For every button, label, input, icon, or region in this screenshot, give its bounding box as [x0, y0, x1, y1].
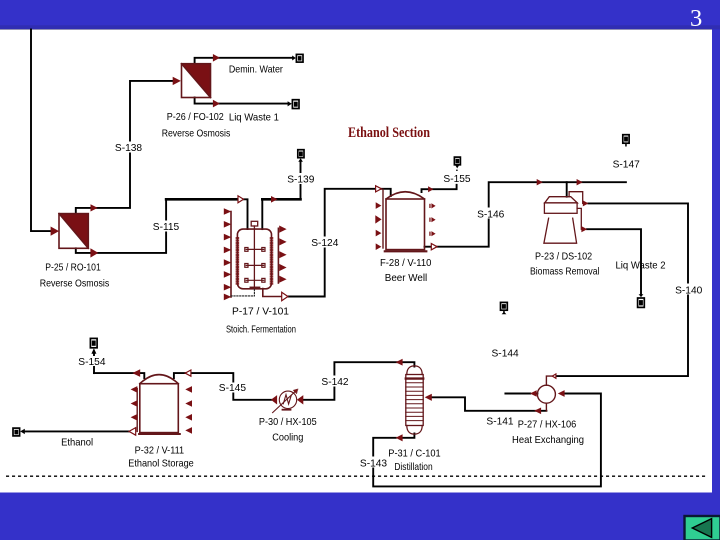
arrow S-146 into centrifuge [537, 179, 543, 185]
tag icon Ethanol [13, 428, 20, 436]
stream and unit labels [40, 64, 703, 473]
open arrow S-115 into fermentor [238, 196, 244, 203]
cooler P-30 / HX-105 [273, 389, 298, 413]
tag icon Demin Water [296, 54, 303, 62]
wire S-138 P-25 to P-26 [76, 81, 173, 214]
distillation column P-31 / C-101 [406, 366, 423, 434]
ethanol storage tank P-32 / V-111 [137, 375, 180, 434]
arrow at Liq Waste 1 tag [288, 101, 292, 106]
svg-text:S-115: S-115 [153, 222, 180, 233]
open arrow S-124 into beer well [376, 186, 382, 192]
svg-text:P-23 / DS-102: P-23 / DS-102 [535, 251, 592, 262]
svg-text:S-139: S-139 [287, 174, 315, 185]
wire S-154 storage tank vent [94, 373, 144, 378]
svg-text:S-140: S-140 [675, 285, 703, 296]
centrifuge P-23 / DS-102 [544, 192, 583, 244]
arrow at Demin Water tag [292, 56, 296, 61]
svg-text:S-147: S-147 [613, 159, 641, 170]
wire S-139 fermentor vent [261, 199, 263, 229]
svg-text:Demin. Water: Demin. Water [229, 64, 284, 75]
arrow fermentor left ports [224, 208, 232, 300]
arrow S-147 [577, 179, 583, 185]
arrow beer well top outlet [428, 186, 433, 192]
arrow Liq Waste 1 [213, 100, 220, 108]
arrow feed into P-25 [51, 227, 59, 236]
nav back button [685, 516, 720, 540]
arrow Liq Waste 2 horizontal [581, 226, 587, 232]
arrow HX-106 bottom outlet [534, 408, 541, 415]
wire S-145 cooler to storage tank [191, 373, 272, 400]
wire S-141 HX-106 outlet stub [505, 393, 530, 395]
svg-text:3: 3 [690, 5, 702, 32]
arrow storage tank left ports [131, 386, 138, 421]
wire S-115 P-25 to fermentor [76, 199, 166, 253]
arrow Demin Water [213, 54, 220, 62]
open arrow Ethanol from tank [129, 428, 136, 436]
fermentor dotted drain [231, 290, 254, 296]
arrow beer well right ports [429, 203, 435, 236]
svg-text:Distillation: Distillation [394, 462, 432, 473]
fermentor right port rail [277, 228, 279, 283]
svg-text:S-145: S-145 [219, 383, 247, 394]
arrow into HX-106 right [558, 390, 565, 397]
svg-text:Liq Waste 2: Liq Waste 2 [616, 260, 666, 271]
wire main feed into P-25 [31, 30, 51, 232]
wire S-155 beer well vent [422, 185, 457, 192]
svg-text:S-138: S-138 [115, 143, 143, 154]
svg-text:P-30 / HX-105: P-30 / HX-105 [259, 417, 317, 428]
wire Liq Waste 2 stream [587, 229, 641, 294]
svg-text:S-143: S-143 [360, 458, 388, 469]
arrow fermentor right ports [279, 226, 286, 283]
tag icon S-154 [90, 338, 97, 347]
open arrow S-145 into tank [185, 370, 191, 376]
stem below S-147 tag [625, 144, 627, 147]
open arrow S-140 into HX-106 [552, 374, 556, 378]
svg-text:S-141: S-141 [486, 416, 514, 427]
tag icon S-147 [623, 135, 629, 144]
arrow S-142 at column top [396, 359, 403, 366]
arrow at Ethanol tag [20, 429, 25, 434]
wire S-142 column top to cooler [303, 362, 414, 400]
svg-text:S-142: S-142 [321, 377, 349, 388]
wire S-124 fermentor to beer well [263, 289, 282, 297]
reverse osmosis P-26 / FO-102 [182, 64, 211, 98]
fermentor jacket hatch strips [236, 238, 273, 285]
wire S-140 centrifuge to HX-106 [556, 203, 688, 376]
arrow S-140 from centrifuge [583, 200, 589, 206]
svg-text:P-32 / V-111: P-32 / V-111 [135, 445, 185, 456]
svg-text:Beer Well: Beer Well [385, 273, 428, 284]
beer well vessel F-28 / V-110 [383, 189, 426, 251]
arrow at S-139 tag [298, 158, 303, 162]
svg-text:Ethanol Section: Ethanol Section [348, 125, 430, 141]
svg-text:F-28 / V-110: F-28 / V-110 [380, 258, 432, 269]
fermentor vessel P-1 / V-101 [231, 212, 278, 298]
wire S-146 beer well to centrifuge [425, 246, 432, 248]
arrow beer well left ports [376, 202, 382, 209]
section boundary dashed line [6, 475, 706, 477]
open arrow S-124 from fermentor [282, 292, 288, 300]
wire Demin Water stream [195, 58, 292, 64]
arrow S-142 into cooler [297, 395, 303, 404]
open arrows [129, 186, 556, 436]
svg-text:P-25 / RO-101: P-25 / RO-101 [45, 262, 101, 273]
svg-text:S-155: S-155 [443, 174, 471, 185]
arrow at Liq Waste 2 tag [639, 294, 644, 297]
svg-text:Reverse Osmosis: Reverse Osmosis [162, 128, 231, 139]
tag icon Liq Waste 2 [638, 298, 645, 307]
tag icon Liq Waste 1 [292, 100, 299, 109]
svg-text:Ethanol Storage: Ethanol Storage [128, 458, 194, 469]
fermentor left port rail [230, 212, 232, 298]
arrow S-115 [90, 248, 98, 257]
svg-text:Reverse Osmosis: Reverse Osmosis [40, 278, 110, 289]
arrow S-154 from tank [132, 369, 140, 377]
svg-text:S-146: S-146 [477, 209, 505, 220]
wire S-147 dead-end stream [567, 181, 626, 183]
tick below S-155 tag [455, 165, 459, 168]
tag icon S-144 [501, 302, 508, 310]
black stream-end arrows [20, 56, 643, 435]
svg-text:Cooling: Cooling [272, 432, 303, 443]
tag icon S-139 [298, 150, 304, 158]
arrow S-141 out of HX-106 [530, 390, 537, 397]
tag icon S-155 [454, 157, 460, 165]
arrow S-145 from cooler [271, 395, 277, 404]
arrow S-138 into P-26 [173, 77, 181, 85]
arrow S-138 a [91, 204, 98, 211]
wire S-143 column bottoms to HX-106 [403, 434, 415, 438]
svg-text:S-154: S-154 [78, 357, 106, 368]
svg-text:P-27 / HX-106: P-27 / HX-106 [518, 419, 577, 430]
wire column feed from HX-106 [432, 397, 547, 411]
open arrow S-146 from beer well [431, 244, 437, 250]
svg-text:S-124: S-124 [311, 238, 339, 249]
arrow column feed inlet [425, 394, 432, 401]
svg-text:S-144: S-144 [492, 348, 520, 359]
label backgrounds [78, 142, 702, 468]
top banner darker strip [0, 25, 720, 29]
arrow S-143 [396, 434, 403, 441]
wire Liq Waste 1 stream [195, 98, 288, 104]
arrow storage tank right ports [185, 386, 192, 434]
svg-text:P-17 / V-101: P-17 / V-101 [232, 306, 289, 317]
svg-text:P-31 / C-101: P-31 / C-101 [388, 448, 441, 459]
svg-text:Biomass Removal: Biomass Removal [530, 267, 599, 278]
stand below S-144 tag [503, 311, 505, 313]
wire Ethanol product stream [25, 430, 130, 432]
arrow at S-154 tag [91, 348, 96, 354]
svg-text:Ethanol: Ethanol [61, 437, 93, 448]
svg-text:P-26 / FO-102: P-26 / FO-102 [167, 112, 224, 123]
arrow S-139 horizontal [271, 196, 278, 203]
heat exchanger P-27 / HX-106 [537, 376, 555, 411]
svg-text:Stoich. Fermentation: Stoich. Fermentation [226, 324, 296, 335]
reverse osmosis P-25 / RO-101 [59, 214, 88, 249]
svg-text:Heat Exchanging: Heat Exchanging [512, 435, 584, 446]
svg-text:Liq Waste 1: Liq Waste 1 [229, 112, 279, 123]
arrows [51, 54, 589, 441]
